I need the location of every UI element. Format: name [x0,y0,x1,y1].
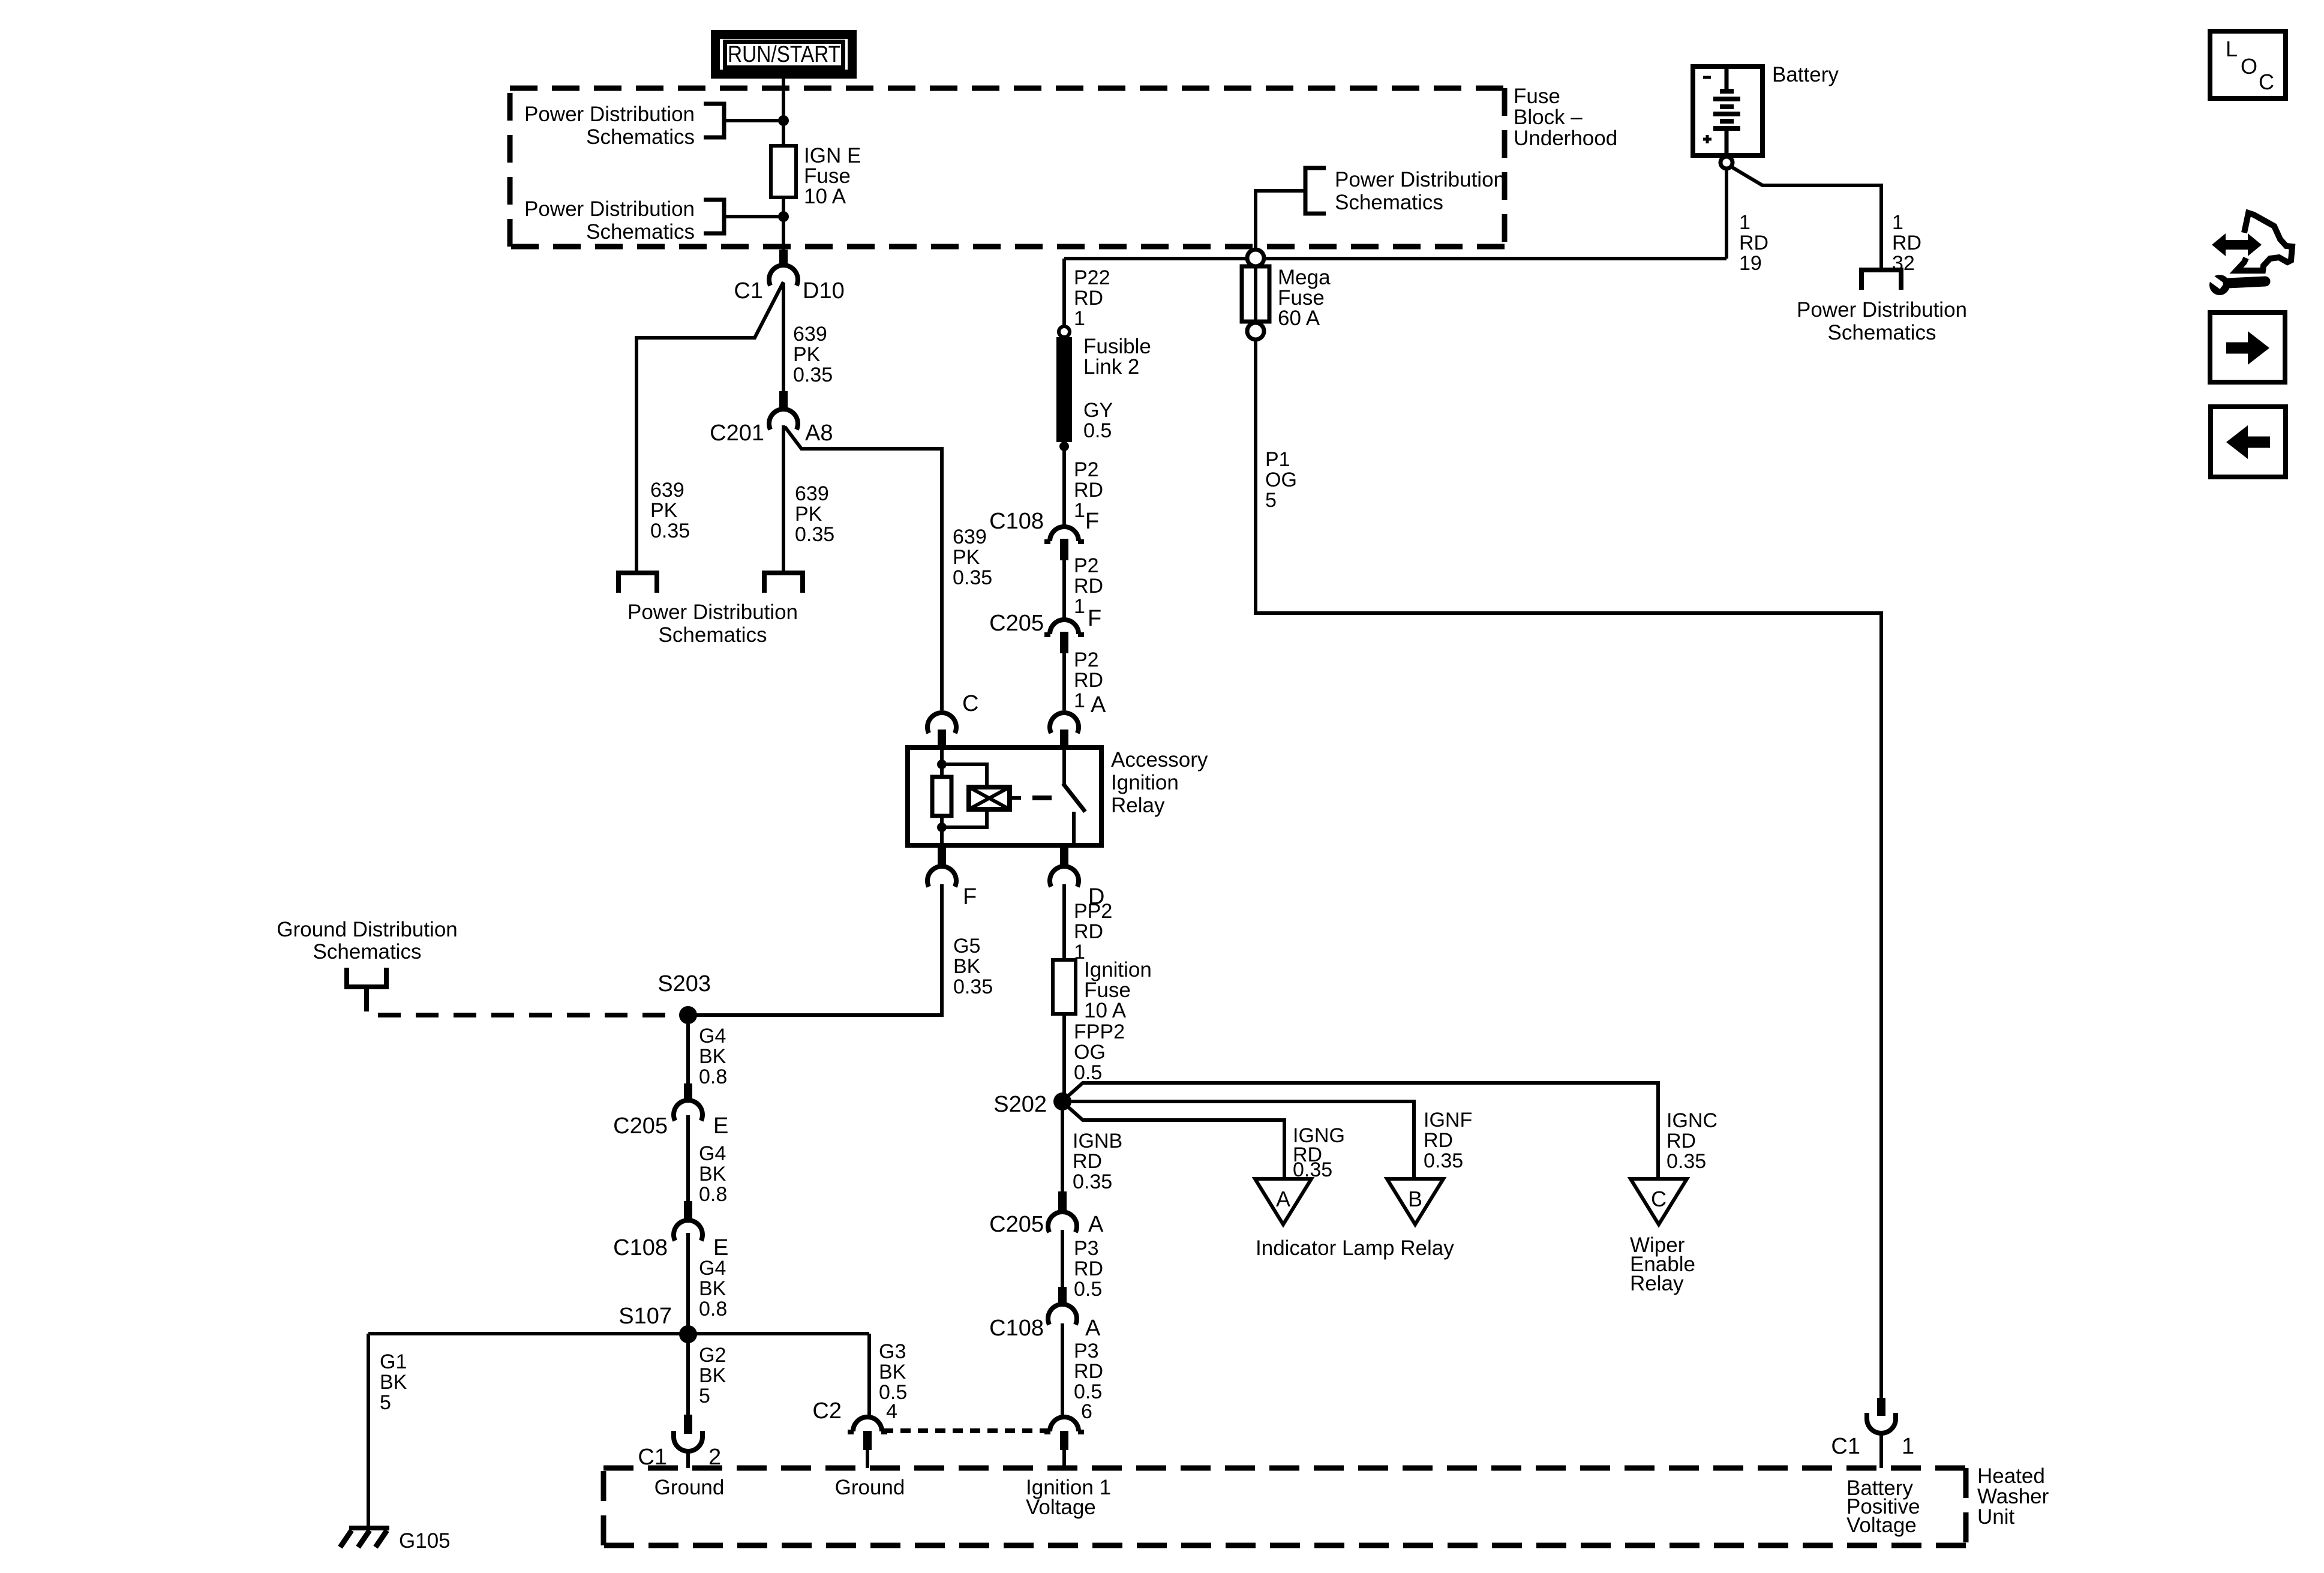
heated washer unit dashed box [603,1468,1966,1545]
svg-text:C205: C205 [989,1212,1044,1237]
dashed wire ground distribution to S203 [367,989,688,1015]
svg-text:C: C [1651,1187,1667,1211]
wire G3 from S107 bus to C2 [867,1334,871,1418]
svg-text:19: 19 [1739,252,1762,275]
connector C205 E [674,1100,702,1121]
svg-text:D10: D10 [803,278,845,304]
svg-text:A8: A8 [805,421,833,446]
accessory ignition relay box [908,748,1101,845]
main feed bus wire from battery [1064,257,1727,260]
svg-text:RD: RD [1667,1130,1696,1152]
wire RUN/START to C1 D10 [782,79,785,251]
relay pin F connector [927,866,956,887]
connector C108 A stub [1058,1287,1067,1305]
svg-text:F: F [1085,509,1099,534]
dotted wire C2 to ignition 1 [883,1428,1049,1433]
svg-text:P2: P2 [1074,458,1099,481]
wire P1 OG 5 to heated washer unit [1256,340,1881,1399]
svg-text:0.5: 0.5 [1074,1278,1102,1301]
svg-text:Schematics: Schematics [1828,321,1936,344]
svg-text:G2: G2 [699,1344,726,1367]
connector C108 E stub [684,1201,692,1220]
fusible link 2 element [1056,337,1072,442]
svg-text:P1: P1 [1265,448,1290,471]
svg-text:Voltage: Voltage [1846,1514,1917,1537]
svg-text:G3: G3 [879,1340,906,1363]
svg-text:Power Distribution: Power Distribution [524,103,695,126]
svg-text:C205: C205 [613,1113,668,1139]
svg-text:0.8: 0.8 [699,1298,727,1320]
svg-text:C108: C108 [989,509,1044,534]
svg-text:C108: C108 [613,1235,668,1260]
connector C201 [769,409,798,430]
svg-text:0.35: 0.35 [1424,1149,1463,1172]
wire S202 to IGNG indicator lamp relay A [1067,1106,1284,1177]
wire G2 S107 down [686,1334,690,1416]
svg-text:RD: RD [1074,1257,1103,1280]
connector C1 1 cup [1867,1413,1896,1433]
svg-text:P2: P2 [1074,554,1099,577]
svg-text:10 A: 10 A [1084,999,1127,1022]
mega fuse top junction circle [1247,250,1264,266]
svg-text:PK: PK [650,499,678,522]
svg-text:5: 5 [1265,489,1277,512]
svg-text:0.8: 0.8 [699,1065,727,1088]
off-page bracket ground distribution [347,968,386,987]
connector C1 D10 [769,265,798,286]
node junction dot bottom [778,211,789,222]
svg-text:G4: G4 [699,1142,726,1165]
svg-text:0.35: 0.35 [953,975,993,998]
relay pin C stub [938,730,946,748]
svg-text:BK: BK [699,1364,726,1387]
svg-text:RD: RD [1074,575,1103,598]
wire coil stub to switch [1010,796,1021,800]
connector C205 F [1044,620,1084,635]
connector C1 2 stub [684,1415,692,1434]
svg-text:PK: PK [795,503,822,526]
wire coil parallel branch [942,764,987,827]
wire branch to power distribution ref 2 [724,215,783,218]
svg-text:639: 639 [795,482,829,505]
svg-text:L: L [2226,37,2238,61]
svg-text:Unit: Unit [1977,1505,2015,1529]
svg-text:BK: BK [699,1277,726,1300]
svg-text:5: 5 [699,1385,710,1407]
svg-text:Battery: Battery [1772,63,1839,86]
svg-text:1: 1 [1074,595,1085,618]
wire S202 down IGNB [1061,1101,1064,1191]
svg-text:C: C [2259,70,2274,94]
svg-text:6: 6 [1081,1400,1092,1423]
svg-text:C108: C108 [989,1316,1044,1341]
node C terminal triangle [1631,1179,1687,1224]
svg-text:60 A: 60 A [1278,307,1320,330]
svg-text:S107: S107 [618,1304,672,1329]
relay pin A connector [1050,713,1079,733]
svg-text:P2: P2 [1074,649,1099,671]
svg-text:C: C [962,691,978,716]
wire tail battery positive into heated washer unit [1879,1432,1883,1468]
connector C205 A stub [1058,1191,1067,1210]
node junction dot top [778,115,789,126]
relay pin A stub [1060,730,1068,748]
svg-text:0.5: 0.5 [1074,1061,1102,1084]
connector C108 F pin stub [1060,539,1068,560]
node A terminal triangle [1255,1179,1311,1224]
svg-text:Link 2: Link 2 [1083,355,1139,379]
relay switch pivot wire [1062,748,1066,785]
svg-text:C205: C205 [989,611,1044,636]
svg-text:Power Distribution: Power Distribution [524,197,695,221]
wire branch to power distribution ref 1 [724,119,783,122]
svg-text:0.35: 0.35 [1667,1150,1706,1173]
svg-text:Schematics: Schematics [313,940,422,963]
svg-text:A: A [1088,1212,1104,1237]
svg-text:PK: PK [953,546,980,569]
svg-text:BK: BK [699,1163,726,1185]
back arrow box [2211,407,2286,477]
wire G1 down to G105 [367,1334,370,1527]
svg-text:RD: RD [1892,232,1921,254]
diagnostic wrench icon [2206,213,2292,295]
svg-text:RD: RD [1424,1129,1453,1152]
svg-text:RD: RD [1073,1150,1102,1173]
node S203 splice [679,1006,697,1024]
svg-text:P22: P22 [1074,266,1110,289]
relay pin D connector [1050,866,1079,887]
off-page bracket power distribution center [764,573,803,593]
svg-text:RD: RD [1074,287,1103,310]
svg-text:1: 1 [1902,1434,1914,1459]
off-page bracket power distribution left [618,573,657,593]
svg-text:G1: G1 [380,1350,407,1373]
wire S202 to IGNF indicator lamp relay B [1071,1101,1414,1177]
wire P3 to C108 [1061,1230,1064,1287]
svg-text:1: 1 [1074,689,1085,712]
svg-text:P3: P3 [1074,1340,1099,1362]
connector C1 2 cup [674,1431,702,1451]
battery [1693,67,1762,155]
connector C108 A [1048,1304,1077,1325]
svg-text:4: 4 [886,1400,897,1423]
wire P22 down from bus [1062,259,1066,327]
relay pin D stub [1060,845,1068,867]
connector C1 1 stub [1877,1398,1885,1416]
svg-text:0.35: 0.35 [795,523,834,546]
svg-text:RD: RD [1074,1360,1103,1383]
svg-text:Power Distribution: Power Distribution [1335,168,1505,191]
wire tail C2 into heated washer unit [866,1450,869,1468]
svg-text:0.5: 0.5 [1083,419,1112,442]
relay switch blade [1063,784,1085,812]
svg-text:PK: PK [793,343,821,366]
svg-text:B: B [1408,1187,1422,1211]
svg-text:Schematics: Schematics [586,125,695,149]
svg-text:G4: G4 [699,1257,726,1280]
svg-text:1: 1 [1892,211,1903,234]
svg-text:RD: RD [1074,920,1103,943]
svg-text:639: 639 [953,526,987,548]
svg-text:GY: GY [1083,399,1113,422]
svg-text:E: E [713,1113,728,1139]
svg-text:Indicator Lamp Relay: Indicator Lamp Relay [1256,1236,1454,1260]
wire P2 to C108 [1062,450,1066,528]
wire PP2 relay D to ignition fuse [1062,884,1066,960]
wire D10 down to C201 [782,283,785,391]
svg-text:BK: BK [380,1371,407,1394]
svg-text:PP2: PP2 [1074,900,1112,923]
node relay bottom junction [937,822,947,832]
connector C2 stub [863,1431,872,1450]
svg-text:Ignition: Ignition [1111,771,1179,794]
connector C108 F [1044,527,1084,542]
svg-text:RUN/START: RUN/START [728,42,840,67]
wire C1 branch diagonal [636,282,783,572]
battery positive junction circle [1721,157,1733,169]
svg-text:BK: BK [879,1361,906,1383]
forward arrow box [2210,313,2285,382]
svg-text:10 A: 10 A [804,185,846,208]
connector C205 F pin stub [1060,632,1068,653]
svg-text:S202: S202 [993,1092,1047,1117]
svg-text:C201: C201 [710,421,764,446]
relay pin C connector [927,713,956,733]
svg-text:Ground: Ground [835,1476,905,1499]
svg-text:IGNB: IGNB [1073,1130,1122,1152]
svg-text:639: 639 [793,323,827,346]
node S107 splice [679,1325,697,1343]
svg-text:RD: RD [1739,232,1768,254]
relay actuation dash [1032,795,1052,800]
svg-text:Accessory: Accessory [1111,748,1208,772]
connector C205 E stub [684,1083,692,1102]
svg-text:RD: RD [1074,479,1103,502]
svg-text:IGNC: IGNC [1667,1109,1718,1132]
svg-text:P3: P3 [1074,1237,1099,1260]
fusible link 2 top circle [1059,326,1070,337]
fuse block underhood dashed box [510,88,1505,247]
svg-text:FPP2: FPP2 [1074,1020,1125,1043]
svg-text:O: O [2241,54,2257,79]
off-page bracket power distribution mega [1305,168,1326,214]
wire S202 to IGNC wiper enable relay [1067,1083,1658,1177]
wire battery to power distribution ref [1731,167,1881,268]
resistor relay [932,777,951,816]
svg-text:Ground: Ground [654,1476,725,1499]
connector C1 D10 pin stub [779,250,788,266]
svg-text:0.8: 0.8 [699,1183,727,1206]
svg-text:G105: G105 [399,1529,451,1553]
connector C205 A [1048,1212,1077,1232]
relay coil [969,787,1010,809]
wire S107 bus horizontal [368,1332,869,1335]
svg-text:F: F [1088,606,1101,631]
node B terminal triangle [1387,1179,1443,1224]
svg-text:C1: C1 [1831,1434,1860,1459]
mega fuse element [1242,266,1269,322]
fuse ignition 10A [1053,960,1076,1014]
wire battery to bus [1725,169,1728,259]
wire G4 S203 down [686,1015,690,1083]
relay coil branch wire [940,748,944,777]
svg-text:Schematics: Schematics [659,623,767,647]
wire P2 to C205 [1062,560,1066,622]
svg-text:BK: BK [953,955,981,978]
svg-text:0.35: 0.35 [953,566,992,589]
node relay top junction [937,760,947,769]
relay switch contact [1072,812,1076,845]
svg-text:OG: OG [1074,1041,1106,1064]
svg-text:Relay: Relay [1111,794,1165,817]
wire FPP2 to S202 [1062,1014,1066,1101]
connector ignition 1 voltage dome [1044,1417,1084,1432]
svg-text:Schematics: Schematics [586,220,695,244]
off-page bracket power distribution 1 [704,104,724,137]
svg-text:Fuse: Fuse [1514,85,1560,108]
wire G4 to C108 [686,1115,690,1201]
svg-text:A: A [1085,1316,1101,1341]
wire tail into heated washer unit [1062,1450,1066,1468]
connector C108 E [674,1220,702,1241]
relay pin F stub [938,845,946,867]
svg-text:IGNF: IGNF [1424,1109,1472,1131]
ground G105 symbol [340,1528,389,1547]
svg-text:Underhood: Underhood [1514,127,1617,150]
off-page bracket power distribution right [1861,270,1901,290]
svg-text:C2: C2 [812,1398,842,1424]
svg-text:OG: OG [1265,469,1297,491]
LOC legend box [2210,31,2286,98]
wire P3 to ignition 1 voltage [1061,1323,1064,1418]
wire P2 to relay pin A [1062,653,1066,710]
off-page bracket power distribution 2 [704,200,724,233]
wire C201 down to bracket [782,425,785,572]
svg-text:0.35: 0.35 [650,520,690,542]
svg-text:F: F [963,884,977,909]
svg-text:0.35: 0.35 [793,364,833,386]
svg-text:0.35: 0.35 [1073,1170,1112,1193]
wire resistor bottom [940,816,944,845]
svg-text:Power Distribution: Power Distribution [627,601,798,624]
wire G4 to S107 [686,1233,690,1334]
svg-text:Ground Distribution: Ground Distribution [277,918,458,941]
wire tail ground into heated washer unit [686,1450,690,1468]
node S202 splice [1053,1092,1071,1110]
svg-text:1: 1 [1074,499,1085,522]
wire A8 branch to relay pin C [785,427,942,710]
svg-text:5: 5 [380,1391,391,1414]
svg-text:G5: G5 [953,935,980,957]
svg-text:RD: RD [1074,669,1103,692]
svg-text:Power Distribution: Power Distribution [1797,298,1967,322]
connector ignition 1 voltage stub [1060,1431,1068,1450]
svg-text:Relay: Relay [1630,1272,1684,1295]
svg-text:A: A [1091,692,1106,718]
wire to power distribution bracket [1256,191,1305,250]
svg-text:BK: BK [699,1045,726,1068]
RUN/START switch box [716,35,852,74]
svg-text:1: 1 [1739,211,1750,234]
svg-text:Schematics: Schematics [1335,191,1443,214]
connector C2 dome [848,1417,887,1432]
svg-text:G4: G4 [699,1025,726,1047]
svg-text:1: 1 [1074,307,1085,330]
wire G5 relay F to S203 [696,884,942,1015]
connector C201 pin stub [779,391,788,409]
svg-text:C1: C1 [734,278,763,304]
svg-text:Voltage: Voltage [1026,1496,1096,1519]
fusible link 2 bottom dot [1059,442,1069,451]
svg-text:Block –: Block – [1514,106,1583,129]
svg-text:639: 639 [650,479,684,502]
mega fuse bottom circle [1247,323,1264,340]
fuse IGN E [771,146,796,197]
svg-text:S203: S203 [657,971,711,996]
svg-text:A: A [1276,1187,1290,1211]
